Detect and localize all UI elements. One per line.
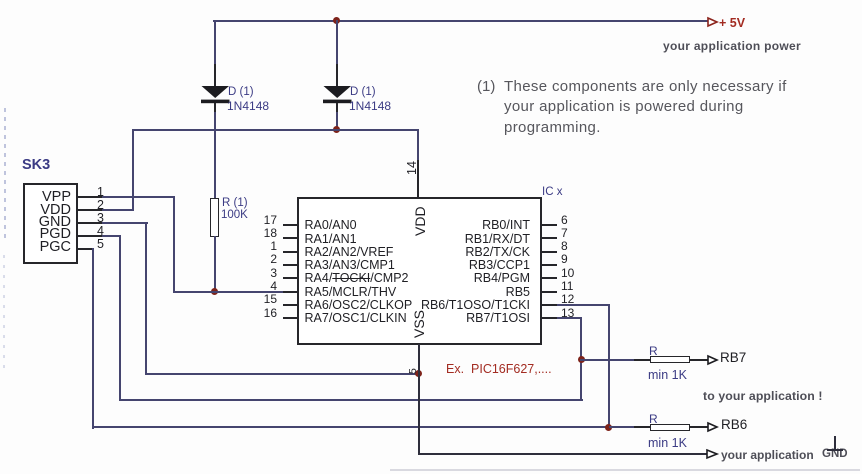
label SK3 VDD	[28, 203, 71, 218]
connector SK3 box	[23, 183, 78, 264]
label GND bottom	[822, 448, 848, 460]
pin label left row 4	[305, 271, 409, 285]
pin stub right 9	[542, 264, 557, 266]
pin number 3 SK3	[97, 211, 104, 225]
label IC x	[542, 186, 562, 198]
pin number 12	[561, 292, 574, 306]
node junction RB6	[605, 424, 612, 431]
label 14 rotated	[405, 161, 419, 175]
wire GND horizontal to VSS	[145, 373, 420, 375]
wire VSS drop from IC	[418, 344, 420, 455]
pin number 15	[250, 292, 277, 306]
wire GND horizontal from pin3	[102, 222, 148, 224]
pin stub left 15	[283, 304, 297, 306]
wire diode D2 cathode stub black	[336, 103, 338, 113]
wire PGD horizontal from pin4	[102, 235, 121, 237]
pin number 1	[250, 239, 277, 253]
diode D2	[323, 86, 352, 104]
label min 1K upper	[648, 368, 687, 382]
node junction R1/VPP/MCLR	[211, 288, 218, 295]
pin stub right 13	[542, 317, 557, 319]
label SK3	[22, 157, 50, 173]
pin stub left 2	[283, 264, 297, 266]
pin label left row 5	[305, 285, 397, 299]
wire SK3 pin1 stub	[76, 196, 102, 198]
pin stub left 1	[283, 251, 297, 253]
pin label right row 0	[330, 218, 530, 232]
node junction RB7	[578, 356, 585, 363]
label SK3 PGC	[28, 240, 71, 255]
pin 14 stub black	[417, 160, 419, 197]
pin stub right 12	[542, 304, 557, 306]
wire SK3 pin4 stub	[76, 235, 102, 237]
wire diode D2 vertical black	[336, 64, 338, 87]
node junction D2/+5V	[333, 17, 340, 24]
wire SK3 pin2 stub	[76, 209, 102, 211]
scan edge artifact left	[4, 108, 6, 243]
pin number 8	[561, 239, 568, 253]
wire R1 bottom lead	[214, 236, 216, 292]
pin stub left 17	[283, 224, 297, 226]
wire PGD riser down	[119, 235, 121, 401]
pin label right row 3	[330, 258, 530, 272]
wire VDD horizontal from pin2	[102, 209, 133, 211]
wire MCLR horizontal to IC pin4	[173, 291, 285, 293]
label D2 name	[350, 86, 376, 98]
pin number 11	[561, 279, 573, 293]
diode D1	[201, 86, 230, 104]
label R lower	[649, 412, 658, 426]
wire diode D1 vertical black	[214, 64, 216, 87]
arrow GND bottom	[706, 449, 718, 459]
pin number 2 SK3	[97, 198, 104, 212]
label D1 name	[228, 86, 254, 98]
IC box	[297, 197, 542, 346]
wire GND bottom horizontal	[418, 453, 709, 455]
wire RB6 junction to resistor	[609, 426, 637, 428]
label 5 rotated	[407, 368, 419, 374]
pin number 7	[561, 226, 568, 240]
pin number 6	[561, 213, 568, 227]
label D2 value	[349, 99, 391, 113]
wire RB7 from pin13	[557, 317, 582, 319]
pin label right row 1	[330, 232, 530, 246]
label your application power	[663, 39, 801, 53]
pin label left row 1	[305, 232, 357, 246]
wire PGD horizontal bottom	[119, 399, 583, 401]
resistor R min 1K lower	[634, 426, 650, 428]
arrow RB7	[707, 355, 718, 365]
label R1 value	[221, 209, 248, 221]
label RB6	[721, 417, 747, 432]
pin number 17	[250, 213, 277, 227]
label SK3 VPP	[28, 190, 71, 205]
pin number 16	[250, 306, 277, 320]
wire diode D1 vertical top navy	[214, 20, 216, 66]
pin number 9	[561, 252, 568, 266]
label SK3 GND	[28, 215, 71, 230]
wire VPP horizontal from pin1	[102, 196, 175, 198]
pin number 4	[250, 279, 277, 293]
pin number 18	[250, 226, 277, 240]
wire SK3 pin5 stub	[76, 248, 93, 250]
wire SK3 pin3 stub	[76, 222, 102, 224]
pin label left row 6	[305, 298, 413, 312]
label to your application	[703, 389, 823, 403]
wire VDD drop to IC pin 14	[417, 129, 419, 162]
label your application bottom	[721, 448, 814, 462]
wire PGC horizontal bottom	[92, 426, 610, 428]
label R upper	[649, 344, 658, 358]
label +5V	[719, 16, 745, 30]
pin label left row 0	[305, 218, 357, 232]
wire D1 cathode down to resistor	[214, 112, 216, 198]
pin number 13	[561, 306, 574, 320]
resistor R min 1K upper	[634, 359, 650, 361]
pin number 10	[561, 266, 574, 280]
pin stub right 10	[542, 277, 557, 279]
label SK3 PGD	[28, 227, 71, 242]
label R1 name	[222, 197, 248, 209]
pin number 4 SK3	[97, 224, 104, 238]
note (1)	[477, 78, 495, 95]
pin stub left 3	[283, 277, 297, 279]
wire VDD riser left	[132, 129, 134, 211]
pin stub right 6	[542, 224, 557, 226]
pin number 2	[250, 252, 277, 266]
pin stub left 4	[283, 291, 297, 293]
wire VPP riser down	[173, 196, 175, 292]
resistor R (1) 100K	[210, 198, 219, 237]
pin label right row 7	[330, 311, 530, 325]
node junction GND/VSS	[415, 370, 422, 377]
pin label right row 6	[330, 298, 530, 312]
wire RB7 to resistor	[580, 359, 636, 361]
wire GND riser down	[145, 222, 147, 374]
wire RB6 from pin12	[557, 304, 610, 306]
label RB7	[720, 350, 746, 365]
wire diode D1 cathode stub black	[214, 103, 216, 113]
label Ex. PIC16F627	[446, 362, 552, 376]
arrow +5V	[707, 17, 718, 27]
pin stub left 16	[283, 317, 297, 319]
pin number 5 SK3	[97, 237, 104, 251]
pin number 3	[250, 266, 277, 280]
pin label left row 2	[305, 245, 394, 259]
wire D2 cathode down to VDD rail	[336, 112, 338, 131]
label VSS rotated	[411, 309, 427, 337]
ground symbol	[834, 436, 836, 450]
node junction D2/VDD rail	[333, 126, 340, 133]
pin stub right 8	[542, 251, 557, 253]
label VDD rotated	[412, 206, 428, 236]
wire diode D2 vertical top navy	[336, 20, 338, 66]
wire PGC riser down	[92, 248, 94, 429]
wire +5V rail	[213, 20, 708, 22]
pin label right row 2	[330, 245, 530, 259]
pin label left row 3	[305, 258, 395, 272]
pin stub left 18	[283, 237, 297, 239]
pin label left row 7	[305, 311, 407, 325]
wire VDD rail horizontal	[132, 129, 419, 131]
arrow RB6	[707, 422, 718, 432]
pin number 1 SK3	[97, 185, 104, 199]
wire RB6 riser	[608, 304, 610, 428]
note line 1	[504, 78, 787, 95]
pin stub right 11	[542, 291, 557, 293]
note line 2	[504, 98, 744, 115]
label D1 value	[227, 99, 269, 113]
label min 1K lower	[648, 436, 687, 450]
pin stub right 7	[542, 237, 557, 239]
note line 3	[504, 119, 601, 136]
wire RB7 riser	[580, 317, 582, 400]
scan smear bottom	[390, 469, 860, 471]
pin label right row 4	[330, 271, 530, 285]
pin label right row 5	[330, 285, 530, 299]
